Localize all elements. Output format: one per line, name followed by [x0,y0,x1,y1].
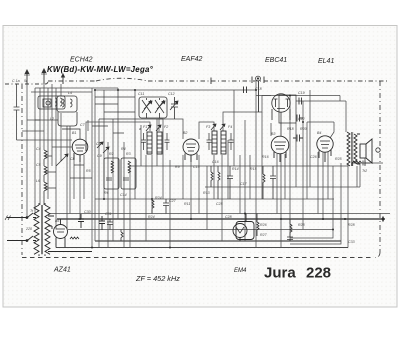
wire bus y247.5 [56,247,348,249]
wire v183 [182,155,184,199]
IF2 side capacitor left [207,133,212,150]
svg-text:R27: R27 [260,233,268,237]
wire v222 [221,155,223,241]
wire v118 [117,88,119,219]
wire v214 [213,155,215,199]
wire v124 [123,142,125,248]
IF1 side capacitor left [141,133,146,150]
svg-text:F1: F1 [143,125,147,129]
IF2 tuning arrow 2 [220,124,225,130]
IF transformer 1 [147,132,162,154]
electrolytic capacitor C30 [78,214,84,228]
svg-text:C16: C16 [212,160,219,164]
wire v323 B4 cathode [322,152,324,219]
svg-text:R13: R13 [203,191,210,195]
svg-text:B5: B5 [55,219,59,223]
variable capacitor C6 [170,97,178,119]
svg-text:F4: F4 [228,125,232,129]
wire v328 [327,152,329,199]
tube B4 EL41 [317,136,333,162]
wire v135 [134,90,136,199]
svg-text:EM4: EM4 [234,268,247,274]
svg-text:EL41: EL41 [318,58,334,65]
svg-text:C4: C4 [36,147,41,151]
wire v92 [91,88,93,248]
magic eye EM4 B6 [233,214,254,242]
wire B4 plate [330,122,334,138]
band switch coil box L1 [38,96,65,109]
svg-text:C18: C18 [255,87,262,91]
wire bus y187 [205,186,360,188]
wire v245 [244,120,246,241]
wire v104 [103,90,105,199]
wire bus y213.5 [50,213,390,215]
speaker jack symbol on boundary [376,148,380,152]
wire v228 [227,140,229,199]
wire v74 B1 pin [73,155,75,199]
antenna trimmer C1a [14,84,23,140]
IF1 tuning arrow 2 [156,125,161,131]
pickup jack P [211,76,264,112]
oscillator coil box L2 [57,96,77,126]
svg-text:R11: R11 [184,202,190,206]
svg-text:R4: R4 [121,147,126,151]
wire v56 [55,88,57,230]
svg-text:R5: R5 [86,169,91,173]
wire bus y166 [130,163,383,166]
svg-text:R9: R9 [175,165,180,169]
IF transformer 2 [212,131,226,154]
wire y101 [296,100,346,102]
wire heavy bus y219 [57,218,385,220]
wire v240 [239,155,241,214]
svg-text:C12: C12 [168,92,175,96]
svg-text:ZF = 452 kHz: ZF = 452 kHz [135,274,180,283]
wire v234 [233,90,235,166]
wire v303 [302,101,304,230]
antenna arrow 3 [62,74,65,84]
tube B3 EBC41 triode [271,136,289,162]
wire IF1 to B2 grid [159,119,183,139]
svg-text:C26: C26 [310,155,317,159]
antenna arrow 2 [41,69,47,84]
capacitor C20 [299,98,302,105]
svg-text:R6: R6 [104,191,109,195]
trimmer arrow 1 [61,154,68,161]
svg-text:B3: B3 [271,132,275,136]
output transformer T2 [347,132,360,166]
svg-text:R16: R16 [262,155,269,159]
svg-text:C8: C8 [96,142,101,146]
wire v146 [145,155,147,241]
wire y122 to B4 plate [307,121,334,123]
svg-text:F2: F2 [164,125,168,129]
wire h140 [22,139,72,141]
wire v357 [356,166,358,187]
power transformer T1 [34,203,50,256]
IF1 tuning arrow 1 [146,125,151,131]
wire v191 B2 cathode [190,155,192,219]
svg-text:Tr2: Tr2 [362,169,367,173]
wire v271 EBC box to B3 [270,123,272,136]
capacitor C23 [297,115,303,122]
svg-text:C17: C17 [240,182,248,186]
wire heavy bus y241 [95,240,341,242]
wire v84 B1 pin [83,155,85,199]
detector diode tube EBC41 top [244,87,297,137]
wire v310 [309,90,311,187]
wire v95 [94,90,96,241]
padder stack L3 [44,150,47,205]
wire v141 [140,125,142,166]
svg-text:AZ41: AZ41 [53,267,71,274]
wire v250 [249,155,251,199]
svg-text:C31: C31 [105,212,112,216]
wire v157 [156,119,158,166]
svg-text:B1: B1 [72,131,76,135]
wire v61 [60,84,62,161]
svg-text:C25: C25 [216,202,223,206]
svg-text:R24: R24 [155,196,162,200]
wire v88b [87,120,89,131]
svg-text:C30: C30 [84,210,91,214]
wire v152 IF1 pin [151,155,153,214]
wire terminal y219 [382,217,384,222]
svg-text:R14: R14 [232,167,239,171]
wire h120 [27,119,58,121]
svg-text:C11: C11 [138,92,144,96]
wire bus y229.5 [68,229,333,231]
screen RC box 2 [121,158,136,189]
wire AVC bus y90 [95,89,256,91]
decoupling parts lower left [107,161,370,242]
chassis dashed boundary right [375,81,380,258]
grid resistor cluster mid [211,166,276,199]
svg-text:R2: R2 [109,152,114,156]
wire v307 [306,122,308,199]
svg-text:C27: C27 [169,199,177,203]
svg-text:L2: L2 [50,117,54,121]
tube B2 EAF42 [183,139,199,162]
svg-text:EAF42: EAF42 [181,56,203,63]
svg-text:C22: C22 [298,117,305,121]
oscillator tuned circuit box [139,97,167,118]
wire h131 [22,130,44,132]
wire B1 plate to IF1 [86,122,150,141]
svg-text:220: 220 [25,227,32,231]
svg-text:C9: C9 [97,154,102,158]
wire v48 [47,88,49,199]
wire v290 [289,96,291,242]
mains switch S1b [7,236,36,242]
wire HT bus y95.5 [256,95,340,97]
wire OT primary top [345,101,347,132]
svg-text:R24: R24 [148,215,155,219]
trimmer arrow 4 [103,147,109,153]
resistor R26 [257,214,259,237]
wire v348 corner [347,163,349,248]
svg-text:C5: C5 [36,163,41,167]
chassis dashed boundary left [21,84,23,255]
svg-text:L6: L6 [36,179,40,183]
svg-text:R20: R20 [300,127,307,131]
wire v99 [98,119,100,248]
chassis dashed boundary top [5,81,48,84]
wire v333 corner [290,166,333,238]
rectifier tube AZ41 B5 [48,216,92,252]
tube B1 ECH42 [62,129,88,162]
wire v256 long [255,82,257,248]
wire h88 [31,88,118,92]
IF1 side capacitor right [165,133,170,150]
svg-text:EBC41: EBC41 [265,57,287,64]
wire B2 plate to IF2 [199,122,214,139]
filter resistor R30 [70,237,79,239]
svg-text:F3: F3 [206,125,210,129]
wire v262 [261,112,263,199]
screen RC box 1 [104,158,119,189]
svg-text:R18: R18 [287,127,294,131]
wire v80 B1 cathode [79,155,81,219]
trimmer arrow 2 [56,160,62,166]
wire v365 speaker [364,158,366,166]
wire v277 [276,154,278,214]
wire v163 [162,119,164,199]
IF2 tuning arrow 1 [211,124,216,130]
wire v296 [295,123,297,187]
wire v113 [112,119,114,241]
main wiring grid [50,90,390,248]
svg-text:B4: B4 [317,131,321,135]
wire v27 antenna [26,84,28,218]
svg-text:C8: C8 [70,157,75,161]
wire v70 [69,126,71,214]
chassis dashed boundary bottom [22,257,374,259]
svg-text:Jura: Jura [264,265,296,282]
wire v285 [284,154,286,199]
antenna arrow 1 [24,70,30,84]
svg-text:KW(Bd)-KW-MW-LW=Jega°: KW(Bd)-KW-MW-LW=Jega° [47,65,154,74]
mid-left short connectors [35,97,163,188]
wire v340 [339,96,341,102]
svg-text:a: a [139,127,141,131]
svg-text:C15: C15 [193,165,200,169]
svg-text:228: 228 [306,265,331,282]
wire v130 [129,166,131,248]
wire v44 [43,84,45,150]
wire v199 [198,155,200,214]
svg-text:R26: R26 [260,223,267,227]
wire IF2 to detector [223,96,271,132]
svg-text:L4: L4 [68,91,72,95]
electrolytic capacitor C31 [99,216,105,230]
wire v40 [39,88,41,205]
capacitor C24 [293,135,303,142]
svg-text:B2: B2 [183,131,187,135]
svg-text:R15: R15 [250,167,257,171]
wire v352 [351,163,353,166]
svg-text:C14: C14 [120,193,127,197]
wire v318 B4 pin [317,152,319,214]
wire v341 corner [290,163,341,244]
svg-text:C 1a: C 1a [12,79,20,83]
svg-text:ECH42: ECH42 [70,57,93,64]
wire v67 [66,126,68,230]
speaker LS [360,139,372,163]
svg-text:C19: C19 [298,91,305,95]
wire v52 [51,84,53,166]
wire v108 [107,142,109,248]
wire bus y199 [95,198,334,200]
IF2 side capacitor right [229,133,234,150]
wire v281 B3 cathode [280,154,282,248]
svg-text:R28: R28 [298,223,305,227]
wire v360 [359,163,361,187]
wire v207 [206,166,208,230]
trimmer arrow 3 [97,142,103,148]
wire v170 [169,160,171,248]
svg-text:R28: R28 [348,223,355,227]
svg-text:C28: C28 [225,215,232,219]
svg-text:R3: R3 [126,152,131,156]
wire v35 [34,88,36,214]
svg-text:R25: R25 [335,157,342,161]
wire h147 grid [52,146,72,148]
svg-text:C33: C33 [348,240,355,244]
sprinkle component value labels [25,87,367,244]
mains switch S1a [5,213,36,220]
